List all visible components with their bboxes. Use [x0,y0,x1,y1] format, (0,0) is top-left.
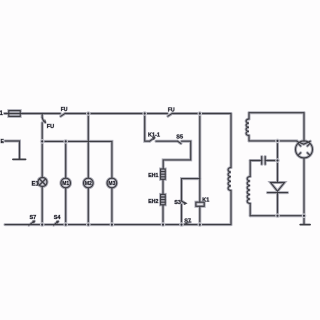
svg-text:FU: FU [168,108,175,114]
svg-text:S7: S7 [30,215,37,221]
svg-text:EH2: EH2 [148,199,158,205]
svg-text:FU: FU [47,124,54,130]
svg-text:K1: K1 [202,197,209,203]
svg-text:S5: S5 [176,134,183,140]
svg-text:S7: S7 [184,219,191,225]
svg-text:M2: M2 [85,181,92,187]
svg-text:E1: E1 [32,182,40,188]
svg-text:S3: S3 [174,200,181,206]
svg-text:S4: S4 [54,215,62,221]
svg-text:FU: FU [61,107,68,113]
svg-text:M3: M3 [108,181,115,187]
svg-text:M1: M1 [62,181,69,187]
svg-text:EH1: EH1 [148,173,158,179]
svg-text:K1-1: K1-1 [148,132,160,138]
